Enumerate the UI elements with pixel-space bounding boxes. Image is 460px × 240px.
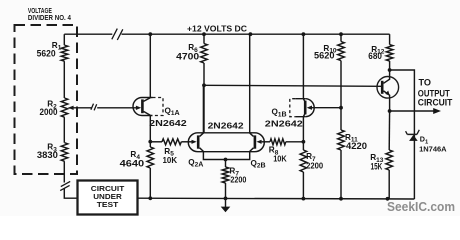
rail junction dots — [148, 32, 152, 36]
potentiometer R2 — [61, 98, 68, 117]
resistor R12 — [389, 34, 391, 44]
svg-text:15K: 15K — [371, 161, 383, 171]
svg-text:4640: 4640 — [120, 159, 145, 169]
svg-text:TO: TO — [419, 78, 432, 88]
wire R1 to R2 — [63, 61, 65, 98]
svg-text:1N746A: 1N746A — [419, 147, 447, 154]
dual transistor Q2A/Q2B envelope — [188, 133, 264, 152]
+12V supply rail wire — [64, 33, 389, 35]
svg-text:4700: 4700 — [176, 52, 199, 62]
circuit under test box — [78, 181, 138, 215]
svg-text:SeekIC.com: SeekIC.com — [387, 199, 455, 214]
svg-text:10K: 10K — [163, 156, 178, 165]
output arrowhead — [433, 108, 441, 114]
svg-text:5620: 5620 — [37, 48, 56, 58]
bottom rail junction dots — [148, 196, 152, 200]
zener diode D1 — [409, 135, 418, 141]
svg-text:5620: 5620 — [314, 50, 335, 60]
resistor R7 (left) — [225, 160, 227, 168]
wire R13 to bottom rail — [388, 170, 390, 199]
wire Q2A collector node to output transistor base — [204, 85, 382, 86]
wire R11 to bottom rail — [340, 150, 342, 199]
resistor R10 — [340, 34, 342, 41]
wire R2 to R3 — [63, 117, 65, 143]
wire Q1B B2 to rail — [302, 34, 304, 99]
break mark on wiper wire — [91, 104, 97, 111]
svg-text:2200: 2200 — [230, 176, 246, 185]
svg-text:2N2642: 2N2642 — [149, 118, 187, 128]
wire R7 right to bottom rail — [302, 172, 304, 199]
svg-text:2N2642: 2N2642 — [208, 121, 244, 131]
wire Q2A collector up — [202, 85, 204, 133]
wire R7 left to bottom rail — [225, 183, 227, 198]
svg-text:Q2B: Q2B — [251, 159, 266, 170]
svg-text:D1: D1 — [420, 135, 429, 146]
wire emitter to output arrow — [390, 110, 435, 112]
ground — [225, 198, 227, 207]
wire R10 to emitter node — [340, 61, 342, 130]
wire R6 to Q2A collector — [203, 63, 205, 133]
wire Q1B B1 down to R8 node — [302, 117, 304, 150]
svg-text:2000: 2000 — [40, 107, 58, 117]
wire Q1A B2 to rail — [149, 34, 151, 97]
wire Q1A B1 down to R4/R5 node — [149, 116, 151, 148]
R2 wiper arrow — [68, 106, 74, 110]
node R4/R5 junction dot — [148, 140, 152, 144]
resistor R3 — [61, 143, 68, 162]
break mark on divider bottom wire — [60, 181, 70, 190]
node R10/R11/Q1B-emitter dot — [339, 106, 343, 110]
wire R1 top to +12V rail corner — [63, 34, 65, 45]
node R8/R7 junction dot — [302, 140, 306, 144]
wire Q2B collector to rail — [249, 34, 251, 133]
wire R4 to bottom rail — [149, 168, 151, 198]
resistor R7 (right) — [300, 150, 307, 172]
svg-text:Q1B: Q1B — [272, 108, 287, 119]
svg-text:Q2A: Q2A — [188, 158, 203, 169]
wire collector node to D1 branch — [390, 70, 415, 199]
wire R2 wiper to Q1A emitter (with break) — [73, 107, 136, 109]
resistor R5 — [150, 141, 162, 143]
resistor R8 — [262, 141, 270, 143]
svg-text:4220: 4220 — [346, 141, 367, 151]
node emitter dot — [388, 109, 392, 113]
output transistor Q3 — [377, 77, 399, 99]
node collector dot — [388, 68, 392, 72]
resistor R4 — [147, 147, 154, 168]
wire R3 down to circuit-under-test (with break) — [64, 161, 77, 198]
svg-text:3830: 3830 — [37, 150, 58, 160]
node base-line tap dot — [202, 83, 206, 87]
svg-text:TEST: TEST — [97, 200, 119, 209]
svg-text:10K: 10K — [273, 155, 287, 164]
svg-text:680: 680 — [368, 51, 382, 61]
svg-text:DIVIDER NO. 4: DIVIDER NO. 4 — [28, 13, 72, 22]
transistor Q1A — [133, 98, 142, 116]
resistor R11 — [338, 130, 345, 150]
wire R12 to collector node — [389, 61, 391, 70]
resistor R1 — [61, 45, 68, 61]
resistor R6 — [203, 34, 205, 43]
svg-text:Q1A: Q1A — [165, 106, 180, 117]
svg-text:2N2642: 2N2642 — [265, 118, 303, 128]
wire Q2 emitters link — [203, 151, 249, 159]
bottom rail wire — [138, 197, 415, 200]
wire Q1B emitter to R10/R11 node — [312, 107, 341, 109]
voltage divider no.4 dashed enclosure — [15, 25, 78, 174]
resistor R13 — [388, 111, 390, 150]
svg-text:+12 VOLTS DC: +12 VOLTS DC — [187, 25, 247, 34]
node Q2 emitters junction dot — [224, 158, 228, 162]
svg-text:CIRCUIT: CIRCUIT — [418, 98, 453, 108]
svg-text:2200: 2200 — [306, 162, 323, 171]
transistor Q1B — [305, 99, 314, 117]
break mark on +12V rail — [112, 29, 123, 40]
